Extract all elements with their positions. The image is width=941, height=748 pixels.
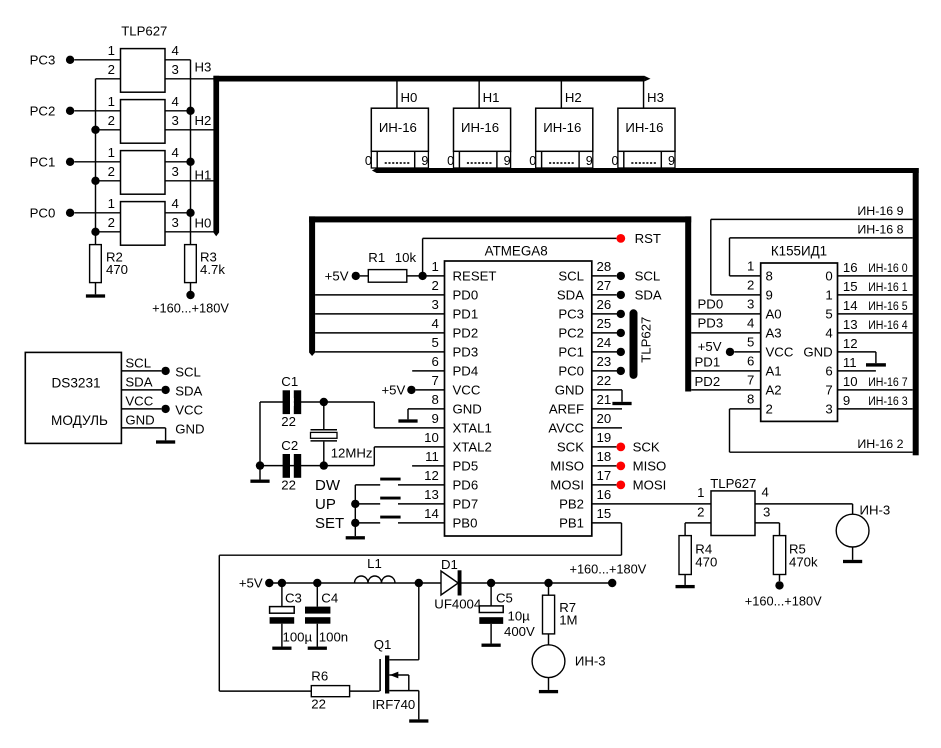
wire U2 pin4 to right rail xyxy=(165,107,195,115)
label DS3231 xyxy=(51,376,100,391)
svg-text:5: 5 xyxy=(825,307,832,322)
svg-text:ИН-16 7: ИН-16 7 xyxy=(868,375,907,389)
U7 right inside label GND xyxy=(803,345,832,360)
svg-text:PC2: PC2 xyxy=(30,103,56,118)
wire anode bus H0-H3 top horizontal (thick) xyxy=(213,76,650,82)
U5 pin 13 label PD7 xyxy=(453,497,479,512)
svg-text:ИН-16 2: ИН-16 2 xyxy=(857,437,903,451)
net label ИН-16 7 xyxy=(868,375,907,389)
U5 pin 24 number xyxy=(597,335,612,350)
svg-text:UP: UP xyxy=(315,496,336,513)
U5 pin 15 label PB1 xyxy=(559,516,584,531)
svg-text:C3: C3 xyxy=(285,590,302,605)
wire U7 output to cathode bus (ИН-16 5) xyxy=(838,313,913,315)
svg-text:3: 3 xyxy=(747,297,754,312)
nixie tube V1 cathode labels 0 and 9 xyxy=(365,154,429,168)
wire U7 pin8 to IN-16 2 net xyxy=(730,409,913,452)
svg-text:9: 9 xyxy=(586,154,593,168)
net label IN-16 9 xyxy=(857,204,903,218)
U5 pin 4 label PD2 xyxy=(453,326,479,341)
svg-text:C2: C2 xyxy=(281,438,298,453)
wire C2 row to XTAL2 xyxy=(260,465,374,467)
TLP627 bundle bar xyxy=(630,309,638,379)
svg-text:L1: L1 xyxy=(367,556,382,571)
svg-text:0: 0 xyxy=(365,154,372,168)
wire U7 pin7 PD2 from bus xyxy=(691,374,761,390)
wire U8 SCL to node xyxy=(121,370,161,372)
svg-text:R6: R6 xyxy=(311,668,328,683)
svg-text:VCC: VCC xyxy=(766,345,794,360)
crystal Q2 12MHz xyxy=(311,402,373,466)
wire PC1 to U3 pin1 xyxy=(74,161,120,163)
wire U1 pin4 to right rail xyxy=(165,59,191,61)
svg-text:1: 1 xyxy=(108,43,115,58)
svg-text:1: 1 xyxy=(825,288,832,303)
U7 pin number 10 xyxy=(843,374,858,389)
ground below C3 xyxy=(272,624,291,650)
svg-text:7: 7 xyxy=(825,383,832,398)
nixie tube V3 cathode pin strip xyxy=(536,151,593,168)
wire U5 PC1 to TLP bundle xyxy=(592,348,625,356)
svg-text:R1: R1 xyxy=(368,250,385,265)
svg-text:RST: RST xyxy=(635,231,661,246)
svg-text:12: 12 xyxy=(424,468,439,483)
U5 pin 1 number xyxy=(431,259,438,274)
node MOSI (red) xyxy=(616,478,666,493)
U1 pin number 3 xyxy=(172,62,179,77)
wire U8 SDA to node xyxy=(121,389,161,391)
svg-text:2: 2 xyxy=(108,62,115,77)
nixie tube V2 cathode dots xyxy=(467,162,492,164)
wire U5 PC2 to TLP bundle xyxy=(592,329,625,337)
U7 right inside label 4 xyxy=(825,326,832,341)
U5 pin 8 number xyxy=(431,392,438,407)
U8 pin label SCL xyxy=(125,355,151,370)
svg-text:4: 4 xyxy=(825,326,832,341)
svg-text:3: 3 xyxy=(763,504,770,519)
wire U3 pin3 to anode bus (H1) xyxy=(165,180,214,182)
wire +5V to U7 pin5 xyxy=(734,351,761,353)
wire U7 pin6 PD1 from bus xyxy=(691,355,761,371)
svg-text:26: 26 xyxy=(597,297,612,312)
svg-text:12MHz: 12MHz xyxy=(331,446,373,461)
U6 pin number 3 xyxy=(763,504,770,519)
U2 pin number 1 xyxy=(108,94,115,109)
svg-text:PD0: PD0 xyxy=(453,288,479,303)
wire U7 output to cathode bus (ИН-16 7) xyxy=(838,389,913,391)
svg-text:PD2: PD2 xyxy=(695,374,721,389)
node SDA at U8 xyxy=(161,384,202,399)
nixie tube V1 cathode dots xyxy=(385,162,410,164)
svg-text:2: 2 xyxy=(766,402,773,417)
svg-text:C1: C1 xyxy=(281,374,298,389)
node R7 junction xyxy=(544,579,552,587)
U3 pin number 4 xyxy=(172,145,179,160)
node C2-crystal junction xyxy=(320,461,328,469)
U5 pin 25 number xyxy=(597,316,612,331)
wire U5 MOSI to node xyxy=(592,484,617,486)
svg-text:DS3231: DS3231 xyxy=(51,376,100,391)
U5 pin 12 label PD6 xyxy=(453,478,479,493)
svg-text:+160...+180V: +160...+180V xyxy=(152,300,229,315)
U5 pin 14 label PB0 xyxy=(453,516,478,531)
svg-text:ATMEGA8: ATMEGA8 xyxy=(485,243,548,258)
wire U5 PD0 to PD bus xyxy=(315,294,444,296)
svg-text:ИН-3: ИН-3 xyxy=(575,654,606,669)
svg-text:PD5: PD5 xyxy=(453,459,479,474)
U4 pin number 1 xyxy=(108,196,115,211)
wire U5 PD6 switch right contact xyxy=(398,484,445,486)
resistor R6 22 xyxy=(311,668,349,711)
optocoupler U3 TLP627 body xyxy=(121,151,166,195)
wire PD data bus left vertical (thick) xyxy=(309,216,315,356)
svg-text:10: 10 xyxy=(843,374,858,389)
svg-text:ИН-16: ИН-16 xyxy=(379,120,417,135)
svg-text:VCC: VCC xyxy=(125,393,153,408)
node H1 at tube V2 xyxy=(483,90,500,105)
U5 pin 19 number xyxy=(597,430,612,445)
wire crystal caps left rail xyxy=(256,402,264,470)
svg-text:ИН-16 0: ИН-16 0 xyxy=(868,261,907,275)
resistor R3 4.7k xyxy=(185,245,226,283)
svg-text:11: 11 xyxy=(425,449,439,464)
wire U4 pin4 to right rail xyxy=(165,209,195,217)
svg-text:IRF740: IRF740 xyxy=(372,697,415,712)
U7 pin number 7 xyxy=(747,373,754,388)
svg-text:4: 4 xyxy=(172,145,179,160)
svg-text:6: 6 xyxy=(747,354,754,369)
svg-text:SDA: SDA xyxy=(175,384,202,399)
svg-text:SCL: SCL xyxy=(125,355,151,370)
svg-text:H3: H3 xyxy=(647,90,664,105)
svg-text:PC2: PC2 xyxy=(558,326,584,341)
nixie tube V2 cathode pin strip xyxy=(454,151,511,168)
wire anode bus left vertical (thick) xyxy=(213,76,219,237)
U5 pin 28 number xyxy=(597,259,612,274)
U5 pin 22 label GND xyxy=(555,383,584,398)
wire U5 AREF stub xyxy=(592,408,622,410)
wire C1 row to XTAL1 xyxy=(260,401,374,403)
U5 pin 16 number xyxy=(597,487,612,502)
U4 pin number 3 xyxy=(172,215,179,230)
svg-text:PD7: PD7 xyxy=(453,497,479,512)
svg-text:VCC: VCC xyxy=(175,403,203,418)
U5 pin 10 number xyxy=(424,430,439,445)
svg-text:ИН-16 9: ИН-16 9 xyxy=(857,204,903,218)
wire PC2 to U2 pin1 xyxy=(74,110,120,112)
U3 pin number 1 xyxy=(108,145,115,160)
svg-text:8: 8 xyxy=(766,269,773,284)
svg-text:MOSI: MOSI xyxy=(633,478,667,493)
svg-text:22: 22 xyxy=(311,697,326,712)
ground below C5 xyxy=(482,624,501,647)
U5 pin 9 number xyxy=(431,411,438,426)
capacitor C1 22 xyxy=(281,374,301,429)
svg-text:XTAL1: XTAL1 xyxy=(453,421,492,436)
svg-text:PD6: PD6 xyxy=(453,478,479,493)
svg-text:PD3: PD3 xyxy=(453,345,479,360)
svg-text:22: 22 xyxy=(597,373,612,388)
nixie tube V2 IN-16 body xyxy=(454,108,511,151)
wire +5V to U5 VCC xyxy=(416,389,445,391)
svg-text:H3: H3 xyxy=(195,59,212,74)
label ATMEGA8 xyxy=(485,243,548,258)
U7 left inside label VCC xyxy=(766,345,794,360)
svg-text:100µ: 100µ xyxy=(283,630,313,645)
svg-text:SCL: SCL xyxy=(558,269,584,284)
U7 pin number 15 xyxy=(843,279,858,294)
neon lamp IN-3 (HL2) xyxy=(836,502,890,547)
svg-text:3: 3 xyxy=(172,113,179,128)
U5 pin 9 label XTAL1 xyxy=(453,421,492,436)
U2 pin number 4 xyxy=(172,94,179,109)
svg-text:18: 18 xyxy=(597,449,612,464)
svg-text:+5V: +5V xyxy=(698,339,722,354)
ground below R2 xyxy=(86,283,105,298)
U5 pin 7 number xyxy=(431,373,438,388)
wire U7 output to cathode bus (ИН-16 0) xyxy=(838,275,913,277)
svg-text:0: 0 xyxy=(529,154,536,168)
svg-text:+160...+180V: +160...+180V xyxy=(745,593,822,608)
svg-text:C5: C5 xyxy=(496,591,513,606)
svg-text:25: 25 xyxy=(597,316,612,331)
switch S1 DW xyxy=(315,477,401,494)
erase C1 gap xyxy=(290,398,294,406)
ground at Q1 source xyxy=(409,691,428,723)
net label ИН-16 0 xyxy=(868,261,907,275)
svg-text:ИН-16 4: ИН-16 4 xyxy=(868,318,907,332)
wire U2 pin2 to left rail xyxy=(91,126,120,134)
resistor R5 470k xyxy=(773,536,818,575)
svg-text:PC0: PC0 xyxy=(30,205,56,220)
U1 pin number 2 xyxy=(108,62,115,77)
U5 pin 26 label PC3 xyxy=(558,307,584,322)
U7 pin number 5 xyxy=(747,335,754,350)
svg-text:SDA: SDA xyxy=(125,374,152,389)
svg-text:1: 1 xyxy=(108,145,115,160)
wire U5 PD5 stub xyxy=(412,465,444,467)
svg-text:RESET: RESET xyxy=(453,269,497,284)
svg-text:D1: D1 xyxy=(441,557,458,572)
svg-text:+160...+180V: +160...+180V xyxy=(569,561,646,576)
svg-text:XTAL2: XTAL2 xyxy=(453,440,492,455)
U7 left inside label 8 xyxy=(766,269,773,284)
U5 pin 24 label PC1 xyxy=(558,345,584,360)
wire D1 cathode to output rail xyxy=(462,582,613,584)
svg-text:16: 16 xyxy=(597,487,612,502)
wire left rail (U1-U4 pin2 common) down to R2 xyxy=(95,79,97,245)
wire U5 PB0 switch right contact xyxy=(398,522,445,524)
U5 pin 7 label VCC xyxy=(453,383,481,398)
ground below C4 xyxy=(308,624,327,650)
wire PD data bus horizontal (thick) xyxy=(309,216,691,222)
resistor R1 10k xyxy=(368,250,416,282)
net label ИН-16 3 xyxy=(868,394,907,408)
node VCC at U8 xyxy=(161,403,203,418)
label K155ID1 xyxy=(771,244,827,259)
U7 right inside label 6 xyxy=(825,364,832,379)
svg-text:ИН-16 5: ИН-16 5 xyxy=(868,299,907,313)
label GND at U8 xyxy=(175,422,204,437)
node +160...+180V below R3 xyxy=(152,283,229,316)
diode D1 UF4004 xyxy=(434,557,481,611)
svg-text:4: 4 xyxy=(431,316,438,331)
wire U7 pin1 to IN-16 8 net xyxy=(730,238,913,276)
svg-text:1: 1 xyxy=(108,94,115,109)
svg-text:SCL: SCL xyxy=(635,269,661,284)
svg-text:5: 5 xyxy=(747,335,754,350)
wire U5 SCK to node xyxy=(592,446,617,448)
U5 pin 14 number xyxy=(424,506,439,521)
svg-text:10k: 10k xyxy=(395,250,417,265)
nixie tube V4 cathode pin strip xyxy=(618,151,675,168)
svg-text:GND: GND xyxy=(803,345,832,360)
svg-text:SCL: SCL xyxy=(175,365,201,380)
U7 left inside label A2 xyxy=(766,383,782,398)
svg-text:12: 12 xyxy=(843,336,858,351)
svg-text:4: 4 xyxy=(747,316,754,331)
svg-text:2: 2 xyxy=(697,504,704,519)
nixie tube V1 IN-16 anode drop wire H0 xyxy=(396,81,398,108)
svg-text:470: 470 xyxy=(106,262,128,277)
svg-text:GND: GND xyxy=(453,402,482,417)
wire U8 VCC to node xyxy=(121,408,161,410)
U7 right inside label 3 xyxy=(825,402,832,417)
ground below R4 xyxy=(676,575,695,589)
U7 pin number 11 xyxy=(843,355,857,370)
wire U1 pin2 to left rail xyxy=(96,78,121,80)
node H0 xyxy=(195,215,212,230)
svg-text:H0: H0 xyxy=(195,215,212,230)
net label IN-16 2 xyxy=(857,437,903,451)
svg-text:24: 24 xyxy=(597,335,612,350)
U8 pin label GND xyxy=(125,412,154,427)
net label ИН-16 4 xyxy=(868,318,907,332)
svg-text:27: 27 xyxy=(597,278,612,293)
svg-text:AREF: AREF xyxy=(549,402,584,417)
U7 pin number 4 xyxy=(747,316,754,331)
wire PC0 to U4 pin1 xyxy=(74,212,120,214)
U5 pin 6 number xyxy=(431,354,438,369)
svg-text:PC3: PC3 xyxy=(30,52,56,67)
U5 pin 13 number xyxy=(424,487,439,502)
node +5V at boost input xyxy=(239,576,274,591)
svg-text:SCK: SCK xyxy=(633,440,660,455)
svg-text:1: 1 xyxy=(431,259,438,274)
resistor R7 1M xyxy=(543,583,578,634)
nixie tube V4 IN-16 anode drop wire H3 xyxy=(643,81,645,108)
svg-text:10: 10 xyxy=(424,430,439,445)
svg-text:GND: GND xyxy=(175,422,204,437)
node H3 at tube V4 xyxy=(647,90,664,105)
net label IN-16 8 xyxy=(857,222,903,236)
switch S2 UP xyxy=(315,496,401,513)
net label ИН-16 5 xyxy=(868,299,907,313)
svg-text:4: 4 xyxy=(172,43,179,58)
svg-text:GND: GND xyxy=(555,383,584,398)
svg-text:9: 9 xyxy=(421,154,428,168)
svg-text:22: 22 xyxy=(281,477,296,492)
svg-text:14: 14 xyxy=(424,506,439,521)
U2 pin number 2 xyxy=(108,113,115,128)
svg-text:PD2: PD2 xyxy=(453,326,479,341)
wire U8 GND to ground xyxy=(121,427,165,429)
svg-text:0: 0 xyxy=(447,154,454,168)
svg-text:A2: A2 xyxy=(766,383,782,398)
svg-text:1: 1 xyxy=(108,196,115,211)
svg-text:10µ: 10µ xyxy=(508,609,531,624)
U7 pin number 16 xyxy=(843,260,858,275)
wire U7 pin3 PD0 from bus xyxy=(691,297,761,314)
wire Q1 drain up to rail xyxy=(418,583,420,660)
node SCK (red) xyxy=(616,440,660,455)
svg-text:15: 15 xyxy=(843,279,858,294)
wire U2 pin3 to anode bus (H2) xyxy=(165,129,214,131)
wire cathode bus right vertical (thick) xyxy=(913,168,919,455)
node L1-D1-drain junction xyxy=(415,579,423,587)
svg-text:17: 17 xyxy=(597,468,612,483)
wire U6 pin2 to R4 xyxy=(685,523,711,536)
U7 left inside label 2 xyxy=(766,402,773,417)
U3 pin number 3 xyxy=(172,164,179,179)
wire U5 PD1 to PD bus xyxy=(315,313,444,315)
svg-text:21: 21 xyxy=(597,392,612,407)
U5 pin 8 label GND xyxy=(453,402,482,417)
svg-text:19: 19 xyxy=(597,430,612,445)
nixie tube V4 cathode dots xyxy=(631,162,656,164)
svg-text:H1: H1 xyxy=(483,90,500,105)
label TLP627 (optocoupler stack) xyxy=(121,24,167,39)
U7 pin number 6 xyxy=(747,354,754,369)
svg-text:400V: 400V xyxy=(504,624,535,639)
node +5V at R1 xyxy=(325,269,360,284)
nixie tube V3 IN-16 anode drop wire H2 xyxy=(560,81,562,108)
U5 pin 22 number xyxy=(597,373,612,388)
svg-text:8: 8 xyxy=(431,392,438,407)
U7 left inside label A3 xyxy=(766,326,782,341)
node +160...+180V output xyxy=(569,561,646,587)
svg-text:UF4004: UF4004 xyxy=(434,597,481,612)
wire R6 to Q1 gate xyxy=(350,690,380,692)
svg-text:MOSI: MOSI xyxy=(550,478,584,493)
U5 pin 26 number xyxy=(597,297,612,312)
U7 right inside label 1 xyxy=(825,288,832,303)
U5 pin 27 number xyxy=(597,278,612,293)
IC U8 DS3231 module body xyxy=(25,352,121,443)
nixie tube V2 cathode labels 0 and 9 xyxy=(447,154,511,168)
svg-text:ИН-16: ИН-16 xyxy=(625,120,663,135)
svg-text:0: 0 xyxy=(825,269,832,284)
svg-text:PB1: PB1 xyxy=(559,516,584,531)
U8 pin label SDA xyxy=(125,374,152,389)
svg-text:PB2: PB2 xyxy=(559,497,584,512)
U7 pin number 9 xyxy=(843,393,850,408)
capacitor C5 10u 400V (electrolytic) xyxy=(479,583,535,639)
wire U5 SDA to node xyxy=(592,294,617,296)
svg-text:AVCC: AVCC xyxy=(548,421,584,436)
svg-text:4: 4 xyxy=(762,484,769,499)
optocoupler U1 TLP627 body xyxy=(121,49,166,93)
svg-text:A3: A3 xyxy=(766,326,782,341)
wire U7 pin4 PD3 from bus xyxy=(691,316,761,333)
svg-text:3: 3 xyxy=(431,297,438,312)
svg-text:9: 9 xyxy=(431,411,438,426)
node +5V at U5 VCC pin7 xyxy=(381,383,415,398)
svg-text:GND: GND xyxy=(125,412,154,427)
wire U5 XTAL2 to crystal net xyxy=(374,447,444,466)
U5 pin 3 label PD1 xyxy=(453,307,479,322)
svg-text:20: 20 xyxy=(597,411,612,426)
